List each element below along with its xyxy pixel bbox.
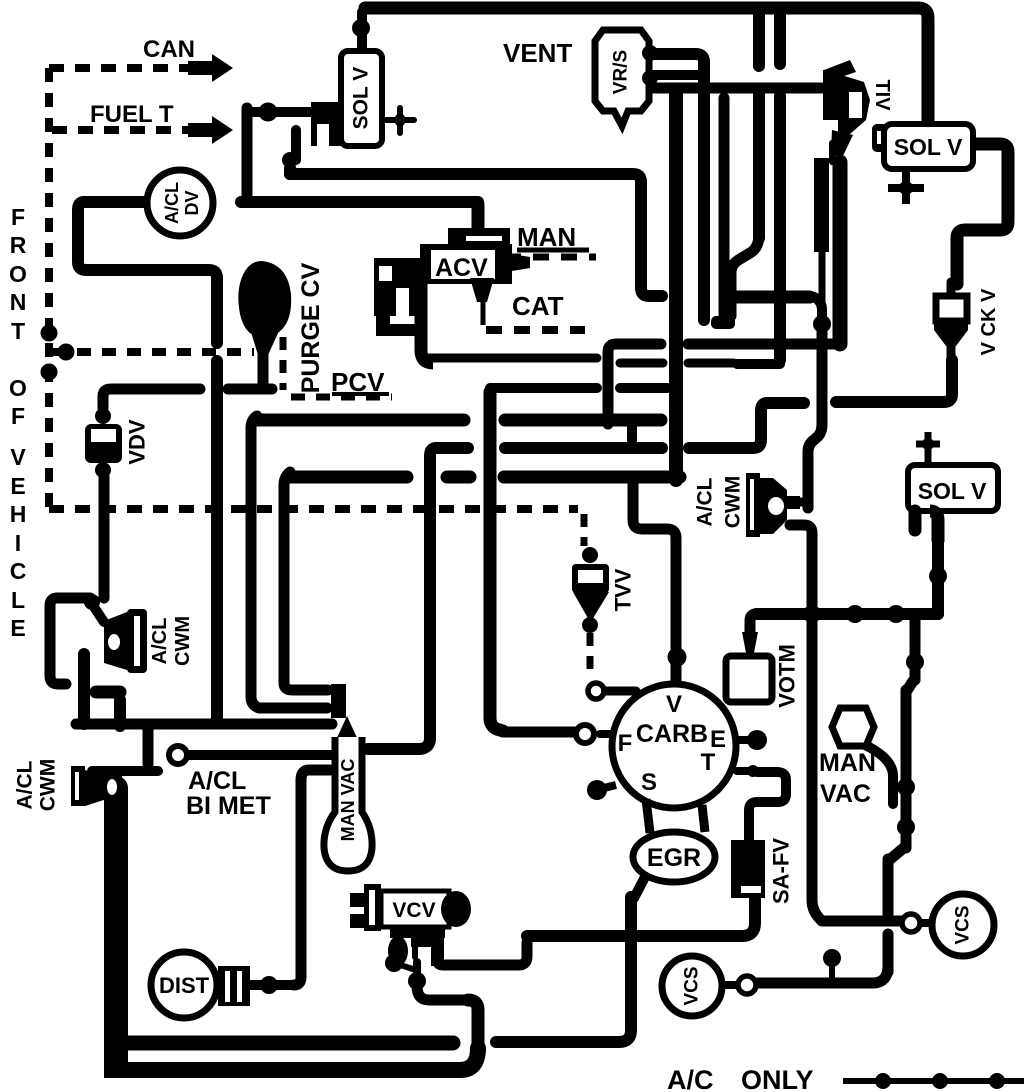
- svg-text:EGR: EGR: [647, 844, 701, 872]
- svg-text:CWM: CWM: [722, 476, 745, 528]
- svg-text:CWM: CWM: [172, 616, 194, 666]
- svg-text:DV: DV: [182, 190, 202, 215]
- svg-text:TIV: TIV: [871, 79, 893, 111]
- svg-text:T: T: [11, 318, 25, 344]
- svg-text:ONLY: ONLY: [741, 1065, 814, 1092]
- svg-text:SOL V: SOL V: [918, 478, 987, 504]
- svg-text:CWM: CWM: [37, 759, 60, 811]
- svg-text:VCV: VCV: [392, 899, 435, 922]
- svg-text:ACV: ACV: [435, 254, 488, 282]
- svg-text:T: T: [701, 749, 716, 776]
- svg-text:C: C: [10, 558, 27, 584]
- svg-text:DIST: DIST: [159, 973, 210, 998]
- svg-text:R: R: [10, 232, 27, 258]
- svg-text:A/CL: A/CL: [162, 182, 182, 224]
- svg-text:VDV: VDV: [125, 419, 150, 465]
- svg-text:A/CL: A/CL: [149, 618, 171, 665]
- svg-text:A/CL: A/CL: [694, 477, 717, 526]
- svg-text:CAN: CAN: [143, 36, 195, 63]
- svg-text:SOL V: SOL V: [350, 67, 373, 130]
- svg-text:VAC: VAC: [820, 780, 871, 808]
- svg-text:V: V: [10, 444, 26, 470]
- svg-text:V: V: [666, 691, 682, 718]
- svg-text:MAN VAC: MAN VAC: [338, 759, 358, 842]
- svg-text:H: H: [10, 501, 27, 527]
- svg-text:F: F: [11, 204, 25, 230]
- svg-text:E: E: [10, 473, 25, 499]
- svg-text:S: S: [641, 769, 657, 796]
- svg-text:CARB: CARB: [636, 720, 708, 748]
- svg-text:FUEL T: FUEL T: [90, 101, 174, 128]
- svg-text:L: L: [11, 587, 25, 613]
- svg-text:O: O: [9, 261, 27, 287]
- svg-text:E: E: [10, 615, 25, 641]
- svg-text:A/C: A/C: [667, 1065, 714, 1092]
- svg-text:F: F: [618, 730, 633, 757]
- svg-text:SOL V: SOL V: [894, 134, 963, 160]
- svg-text:A/CL: A/CL: [14, 760, 37, 809]
- svg-text:F: F: [11, 403, 25, 429]
- svg-text:VCS: VCS: [953, 905, 974, 944]
- svg-text:TVV: TVV: [611, 568, 636, 611]
- svg-text:O: O: [9, 375, 27, 401]
- svg-text:CAT: CAT: [512, 291, 564, 321]
- svg-text:BI MET: BI MET: [186, 792, 271, 820]
- svg-text:VENT: VENT: [503, 38, 572, 68]
- svg-text:PURGE CV: PURGE CV: [297, 262, 325, 393]
- svg-text:V CK V: V CK V: [978, 288, 1000, 355]
- svg-text:MAN: MAN: [819, 749, 876, 777]
- svg-text:VCS: VCS: [682, 966, 703, 1005]
- svg-text:N: N: [10, 289, 27, 315]
- svg-text:I: I: [15, 530, 21, 556]
- svg-text:VOTM: VOTM: [775, 644, 800, 708]
- svg-text:SA-FV: SA-FV: [769, 838, 794, 904]
- svg-text:A/CL: A/CL: [188, 767, 246, 795]
- svg-text:VR/S: VR/S: [611, 50, 632, 94]
